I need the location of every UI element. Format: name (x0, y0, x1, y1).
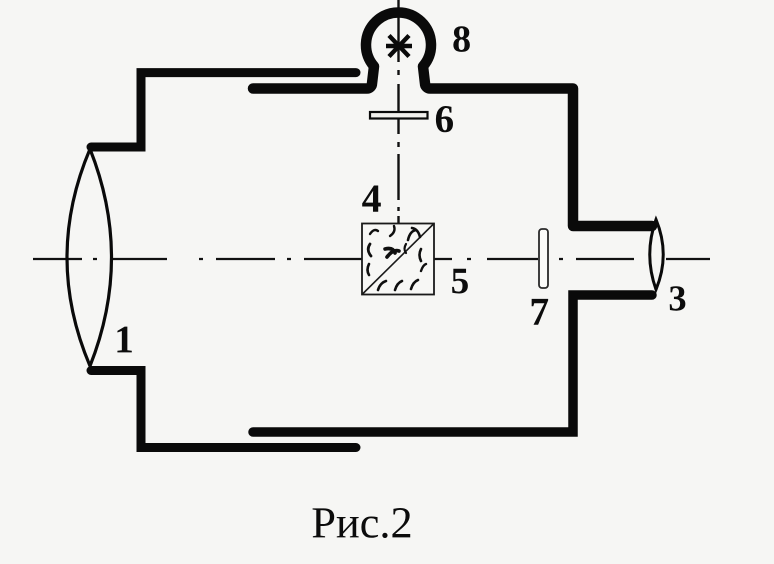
node axis-vertical (lamp axis, dash-dot) (397, 0, 399, 240)
caption Рис.2 (313, 508, 411, 538)
node axis-horizontal (optical axis, dash-dot) (33, 258, 710, 260)
wire housing-top-lid (outer top wall + left wall + upper ledge) (91, 73, 356, 147)
lens L3 (eyepiece, biconvex) (650, 220, 664, 290)
lamp filament star (source 8) (386, 36, 412, 57)
condenser plate 6 (370, 112, 428, 119)
label 6 (condenser plate) (436, 106, 453, 132)
label 5 (cube output) (452, 269, 468, 294)
label 7 (aperture plate) (532, 299, 548, 325)
aperture / filter plate 7 (539, 229, 548, 288)
beamsplitter scatter speckles (368, 226, 427, 290)
label 1 (lens L1) (117, 327, 131, 353)
lens L1 (objective, biconvex) (67, 149, 112, 366)
label 8 (lamp) (453, 26, 470, 52)
label 4 (beamsplitter cube) (362, 185, 381, 211)
wire housing-bottom-left (lower ledge + left wall + outer bottom wall) (91, 371, 356, 448)
label 3 (eyepiece lens) (670, 286, 686, 311)
beamsplitter diagonal (362, 224, 434, 295)
wire housing-bottom-right (tube bottom + right wall + inner bottom wall) (253, 295, 652, 432)
wire housing-top-right with lamp 8 socket (253, 12, 652, 226)
beamsplitter cube 4/5 outline (362, 224, 434, 295)
